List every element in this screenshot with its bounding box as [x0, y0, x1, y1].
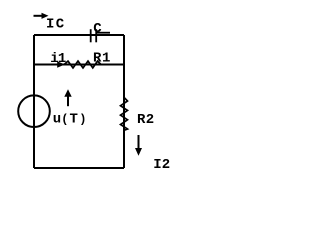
svg-text:I2: I2 — [153, 157, 170, 173]
svg-text:C: C — [93, 21, 102, 37]
svg-text:R1: R1 — [93, 51, 110, 67]
svg-text:i1: i1 — [50, 51, 66, 67]
svg-text:u(T): u(T) — [53, 111, 87, 127]
svg-text:IC: IC — [46, 17, 65, 33]
svg-text:R2: R2 — [137, 112, 154, 128]
